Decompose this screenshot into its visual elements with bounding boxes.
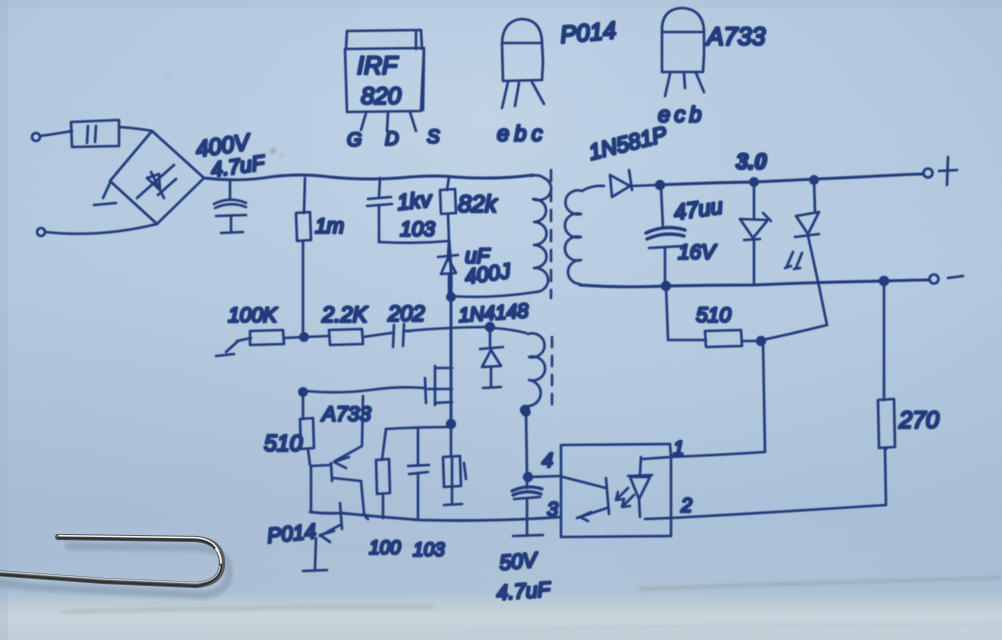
svg-text:16V: 16V bbox=[678, 241, 717, 264]
resistor R3 100K bbox=[237, 330, 303, 345]
resistor R1 1m bbox=[296, 178, 311, 337]
node dot zener tap bbox=[750, 178, 757, 185]
node dot minus R8 bbox=[880, 277, 888, 285]
wire drain/source vertical bbox=[449, 241, 451, 425]
svg-text:820: 820 bbox=[361, 83, 402, 110]
node dot gate wire left bbox=[299, 388, 306, 395]
diode D3 1N4148 bbox=[480, 329, 503, 388]
svg-text:IRF: IRF bbox=[357, 52, 399, 80]
resistor R6 510 vertical bbox=[300, 392, 314, 465]
wire node to feedback coil bbox=[493, 328, 526, 333]
wire secondary top to D2 bbox=[582, 186, 604, 191]
capacitor C3 202 bbox=[391, 324, 411, 347]
bridge rectifier BR1 bbox=[110, 131, 204, 224]
transistor Q3 P014 symbol bbox=[303, 503, 342, 571]
LED small marks bbox=[785, 252, 802, 269]
transistor Q2 A733 symbol bbox=[311, 396, 368, 519]
capacitor C1 400V 4.7uF bbox=[214, 180, 246, 233]
wire C3 to D3 node bbox=[407, 327, 488, 331]
svg-text:270: 270 bbox=[898, 407, 940, 434]
resistor R2 82k bbox=[440, 177, 456, 241]
input terminal bottom bbox=[37, 228, 45, 236]
node dot at R3/R1 junction bbox=[300, 333, 307, 340]
bridge left corner stub and tick bbox=[94, 183, 116, 205]
wire input top to fuse bbox=[40, 131, 72, 136]
wire snubber bottom to primary coil bbox=[449, 292, 536, 297]
node dot R7 right bbox=[757, 337, 765, 345]
svg-text:ebc: ebc bbox=[497, 121, 547, 146]
wire input bottom to bridge bbox=[45, 224, 157, 234]
svg-text:4.7uF: 4.7uF bbox=[496, 578, 552, 605]
fuse F1 bbox=[71, 120, 119, 147]
node dot 47u tap bbox=[656, 181, 664, 189]
wire source node to RC bank top bbox=[386, 427, 450, 429]
svg-text:1kv: 1kv bbox=[396, 186, 435, 215]
transistor package U1 IRF820 outline bbox=[345, 30, 424, 112]
wire fuse to bridge bbox=[119, 127, 152, 131]
svg-text:50V: 50V bbox=[498, 549, 539, 575]
input terminal top bbox=[32, 133, 40, 141]
transformer T1 primary winding bbox=[531, 175, 551, 292]
U1 pin legs G D S bbox=[361, 112, 416, 131]
resistor R4 2.2K bbox=[305, 329, 391, 345]
capacitor C2 1kv 103 bbox=[367, 178, 449, 243]
svg-text:ecb: ecb bbox=[658, 102, 705, 127]
diode D1 400V snubber bbox=[438, 241, 458, 295]
svg-text:P014: P014 bbox=[559, 17, 617, 49]
node dot D3 top bbox=[486, 323, 494, 331]
wire pin4 bbox=[528, 476, 561, 477]
node dot minus C7 bbox=[662, 282, 670, 290]
svg-text:510: 510 bbox=[264, 430, 303, 456]
svg-text:G: G bbox=[347, 130, 362, 151]
svg-text:2: 2 bbox=[680, 495, 692, 517]
svg-text:103: 103 bbox=[400, 218, 435, 241]
transistor Q3 package P014 TO-92 bbox=[502, 19, 544, 108]
node junction dot bbox=[447, 293, 454, 300]
minus sign bbox=[948, 276, 963, 278]
node dot opto branch top bbox=[523, 409, 530, 416]
svg-text:3.0: 3.0 bbox=[736, 149, 767, 174]
svg-text:4: 4 bbox=[542, 450, 553, 472]
wire pin2 to R8 bottom bbox=[645, 449, 886, 519]
wire feedback coil down to opto branch bbox=[526, 410, 527, 477]
transformer core dashed line upper bbox=[550, 170, 553, 298]
transistor Q2 package A733 TO-92 bbox=[662, 8, 704, 96]
wire pin1 to feedback node bbox=[643, 341, 765, 459]
capacitor C6 50V 4.7uF bbox=[512, 477, 543, 536]
svg-text:S: S bbox=[427, 127, 440, 148]
svg-text:510: 510 bbox=[696, 304, 731, 327]
node dot LED tap bbox=[810, 176, 817, 183]
capacitor C5 electrolytic small bbox=[443, 428, 466, 505]
optocoupler U2 box bbox=[561, 444, 671, 537]
resistor R8 270 bbox=[878, 281, 895, 449]
svg-text:202: 202 bbox=[387, 301, 425, 326]
capacitor C4 (103) bbox=[408, 429, 429, 519]
capacitor C7 47u 16V bbox=[646, 187, 685, 284]
zener diode ZD1 bbox=[740, 182, 771, 284]
svg-text:3: 3 bbox=[547, 499, 558, 521]
svg-text:2.2K: 2.2K bbox=[321, 302, 369, 327]
wire main top rail bbox=[204, 175, 533, 180]
svg-text:82k: 82k bbox=[458, 191, 499, 218]
svg-text:D: D bbox=[385, 129, 399, 150]
output terminal minus bbox=[930, 275, 939, 284]
U2 internal phototransistor bbox=[563, 477, 609, 521]
wire output plus rail bbox=[658, 174, 922, 185]
MOSFET Q1 symbol bbox=[425, 366, 452, 405]
output terminal plus bbox=[924, 169, 933, 178]
svg-text:A733: A733 bbox=[705, 23, 765, 51]
node dot feedback coil bottom bbox=[521, 406, 529, 414]
svg-text:100K: 100K bbox=[228, 304, 278, 327]
diode D2 1N5819 bbox=[610, 170, 658, 197]
transformer T1 feedback winding bbox=[525, 333, 545, 409]
svg-text:1m: 1m bbox=[315, 215, 344, 238]
open terminal stub left of 100K bbox=[216, 342, 237, 356]
svg-text:100: 100 bbox=[369, 538, 401, 559]
U2 internal LED bbox=[616, 457, 652, 517]
LED D4 bbox=[795, 180, 827, 325]
transformer T1 secondary winding bbox=[565, 190, 582, 284]
wire output minus rail bbox=[580, 280, 929, 287]
wire bottom bus bbox=[310, 512, 561, 521]
node dot pin4 junction bbox=[524, 473, 532, 481]
svg-text:103: 103 bbox=[413, 540, 445, 561]
node dot source bottom bbox=[447, 420, 455, 428]
svg-text:A733: A733 bbox=[320, 403, 371, 426]
resistor R7 510 output bbox=[666, 286, 827, 347]
paperclip shadow bbox=[0, 546, 229, 595]
MOSFET Q1 gate wire bbox=[305, 387, 424, 392]
plus sign bbox=[939, 157, 957, 185]
wire base junction down to emitter bus bbox=[310, 466, 313, 511]
transformer core dashed line lower bbox=[551, 337, 554, 412]
paperclip bbox=[0, 536, 222, 587]
resistor R5 (100) vertical bbox=[376, 429, 390, 518]
